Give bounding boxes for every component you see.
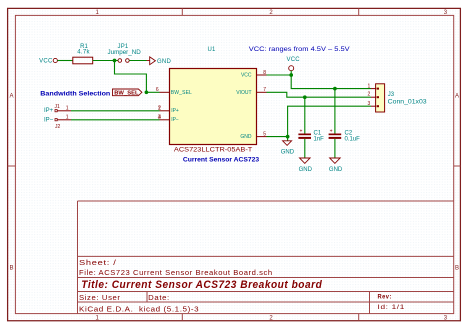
title block bbox=[78, 201, 454, 314]
svg-text:Jumper_ND: Jumper_ND bbox=[108, 49, 142, 56]
ground (U1 GND) bbox=[281, 137, 295, 156]
svg-text:IP+: IP+ bbox=[44, 108, 54, 114]
svg-text:6: 6 bbox=[156, 87, 159, 93]
ground (C1) bbox=[299, 158, 313, 173]
svg-text:Rev:: Rev: bbox=[378, 293, 392, 300]
svg-text:GND: GND bbox=[281, 150, 295, 156]
svg-text:4.7k: 4.7k bbox=[77, 50, 90, 56]
junction at GND bbox=[286, 135, 290, 139]
svg-text:A: A bbox=[9, 93, 13, 99]
svg-text:U1: U1 bbox=[207, 47, 216, 53]
junction at BW_SEL bbox=[145, 90, 149, 94]
svg-text:Id: 1/1: Id: 1/1 bbox=[378, 304, 406, 311]
svg-text:KiCad E.D.A. kicad (5.1.5)-3: KiCad E.D.A. kicad (5.1.5)-3 bbox=[79, 305, 199, 314]
svg-text:IP−: IP− bbox=[171, 117, 179, 123]
capacitor C1 bbox=[298, 129, 324, 143]
wire C1 to GND bbox=[304, 139, 306, 158]
resistor R1 bbox=[73, 44, 93, 64]
svg-text:B: B bbox=[455, 265, 459, 271]
svg-text:A: A bbox=[455, 93, 459, 99]
U1 pins 1,2 IP+ bbox=[158, 106, 179, 115]
power symbol VCC (right) bbox=[287, 57, 301, 75]
junction at VCC bbox=[289, 73, 293, 77]
wire JP1 to GND bbox=[129, 60, 150, 62]
wire U1 VCC to VCC symbol bbox=[267, 74, 292, 76]
IC U1 ACS723 body bbox=[170, 47, 257, 145]
capacitor C2 bbox=[329, 129, 361, 143]
svg-text:Title: Current Sensor ACS723 B: Title: Current Sensor ACS723 Breakout bo… bbox=[81, 279, 322, 291]
wire J3 pin3 row bbox=[288, 106, 371, 136]
U1 pins 3,4 IP- bbox=[158, 115, 179, 123]
connector J3 bbox=[376, 84, 428, 112]
svg-text:1: 1 bbox=[66, 114, 69, 120]
junction at R1/JP1 bbox=[113, 59, 117, 63]
wire VCC down and right to J3 pin 1 bbox=[291, 75, 371, 89]
svg-text:J1: J1 bbox=[55, 104, 61, 110]
svg-text:IP−: IP− bbox=[44, 117, 54, 123]
svg-text:VIOUT: VIOUT bbox=[236, 90, 251, 96]
J3 pin 2 bbox=[368, 92, 376, 98]
svg-text:VCC: VCC bbox=[287, 57, 301, 63]
wire VIOUT stepped to J3 pin 2 bbox=[267, 92, 372, 97]
svg-text:4: 4 bbox=[158, 115, 161, 121]
svg-text:File: ACS723 Current Sensor Br: File: ACS723 Current Sensor Breakout Boa… bbox=[79, 268, 273, 277]
svg-text:BW_SEL: BW_SEL bbox=[171, 90, 192, 96]
svg-text:Current Sensor ACS723: Current Sensor ACS723 bbox=[183, 156, 260, 163]
wire U1 GND to junction bbox=[267, 136, 288, 138]
wire R1 to JP1 bbox=[93, 60, 118, 62]
svg-text:Size: User: Size: User bbox=[79, 295, 121, 302]
svg-text:VCC: VCC bbox=[241, 72, 252, 78]
svg-text:VCC: ranges from 4.5V – 5.5V: VCC: ranges from 4.5V – 5.5V bbox=[249, 46, 351, 53]
U1 pin 6 BW_SEL bbox=[156, 87, 192, 96]
svg-text:1: 1 bbox=[66, 105, 69, 111]
wire VCC to R1 bbox=[57, 60, 72, 62]
svg-text:IP+: IP+ bbox=[171, 108, 179, 114]
svg-text:Bandwidth Selection: Bandwidth Selection bbox=[40, 91, 110, 98]
svg-text:VCC: VCC bbox=[39, 58, 53, 64]
svg-text:GND: GND bbox=[157, 59, 172, 65]
svg-text:1: 1 bbox=[368, 83, 371, 89]
svg-text:8: 8 bbox=[263, 70, 266, 76]
junction at C1 column bbox=[303, 95, 307, 99]
svg-text:3: 3 bbox=[368, 101, 371, 107]
svg-text:J3: J3 bbox=[388, 92, 395, 98]
svg-text:Sheet: /: Sheet: / bbox=[79, 258, 117, 267]
svg-text:2: 2 bbox=[158, 106, 161, 112]
wire BW_SEL to pin 6 bbox=[146, 91, 159, 93]
U1 pin 8 VCC bbox=[241, 70, 267, 79]
connector J2 bbox=[44, 114, 71, 130]
wire J2 to U1 IP- bbox=[71, 119, 160, 121]
svg-text:C2: C2 bbox=[345, 131, 353, 137]
U1 pin 7 VIOUT bbox=[236, 87, 266, 96]
jumper JP1 bbox=[108, 44, 142, 62]
svg-text:ACS723LLCTR-05AB-T: ACS723LLCTR-05AB-T bbox=[174, 147, 253, 154]
junction at C2 column bbox=[333, 87, 337, 91]
wire J1 to U1 IP+ bbox=[71, 110, 160, 112]
ground (top, rotated right) bbox=[147, 57, 172, 65]
svg-text:B: B bbox=[9, 265, 13, 271]
svg-text:C1: C1 bbox=[314, 131, 322, 137]
global label BW_SEL bbox=[113, 89, 142, 96]
wire C1 column down bbox=[304, 97, 306, 133]
svg-text:GND: GND bbox=[329, 167, 343, 173]
svg-text:2: 2 bbox=[368, 92, 371, 98]
svg-text:BW_SEL: BW_SEL bbox=[114, 90, 139, 96]
svg-text:5: 5 bbox=[263, 131, 266, 137]
J3 pin 1 bbox=[368, 83, 376, 89]
connector J1 bbox=[44, 104, 71, 114]
wire C2 to GND bbox=[334, 139, 336, 158]
svg-text:Date:: Date: bbox=[148, 295, 170, 302]
J3 pin 3 bbox=[368, 101, 376, 107]
svg-text:7: 7 bbox=[263, 87, 266, 93]
wire from junction down, stepped to BW_SEL row bbox=[115, 61, 147, 93]
wire C2 column down bbox=[334, 89, 336, 134]
ground (C2) bbox=[329, 158, 343, 173]
svg-text:0.1uF: 0.1uF bbox=[345, 137, 361, 143]
svg-text:1nF: 1nF bbox=[314, 137, 325, 143]
svg-text:GND: GND bbox=[240, 134, 252, 140]
svg-text:Conn_01x03: Conn_01x03 bbox=[388, 99, 428, 106]
power symbol VCC (left) bbox=[39, 58, 57, 64]
svg-text:J2: J2 bbox=[55, 124, 61, 130]
U1 pin 5 GND bbox=[240, 131, 266, 140]
svg-text:GND: GND bbox=[299, 167, 313, 173]
